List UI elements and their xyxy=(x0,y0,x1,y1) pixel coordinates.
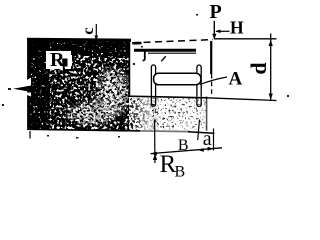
wall bottom edge xyxy=(29,129,190,131)
svg-text:P: P xyxy=(210,1,222,23)
beam end solid line xyxy=(210,41,212,74)
H leader line xyxy=(216,30,230,32)
bottom dimension line xyxy=(151,148,223,154)
c arrowhead xyxy=(95,36,99,42)
wall bottom edge fade xyxy=(140,128,207,133)
left anchor bolt xyxy=(151,65,155,97)
right anchor bolt xyxy=(197,65,201,97)
wall top edge xyxy=(27,38,131,42)
beam end dashed line xyxy=(211,74,213,97)
wall right edge below notch xyxy=(206,97,208,131)
svg-text:d: d xyxy=(246,62,271,74)
weld tick xyxy=(161,56,166,61)
wall hatch main block xyxy=(30,40,132,130)
left edge white wedge xyxy=(16,78,31,88)
a right extension line xyxy=(213,129,215,151)
d bottom extension line xyxy=(207,98,277,101)
svg-text:H: H xyxy=(230,18,244,38)
seat top plate thick line xyxy=(134,49,196,52)
a overbar xyxy=(188,132,214,133)
svg-text:c: c xyxy=(80,27,97,34)
bottom dim right arrowhead xyxy=(208,147,214,151)
scattered scan specks xyxy=(2,14,289,139)
notch top first thick dash xyxy=(133,42,142,45)
notch left edge xyxy=(128,41,130,97)
B right extension line xyxy=(198,120,200,141)
seat top plate lower line xyxy=(148,52,196,54)
reaction label subscript blob xyxy=(62,59,68,71)
seat slot bar xyxy=(154,73,201,85)
left anchor bolt lower U end xyxy=(151,97,155,106)
wall bottom-left tick xyxy=(29,131,31,139)
wall hatch below seat notch xyxy=(129,98,207,130)
svg-text:A: A xyxy=(229,69,243,90)
svg-text:B: B xyxy=(175,164,186,181)
d top extension line xyxy=(214,38,277,40)
right anchor bolt lower U end xyxy=(197,97,201,107)
dimension line d xyxy=(270,34,272,101)
d top arrowhead xyxy=(269,40,273,47)
notch top dashed line xyxy=(132,40,213,43)
reaction RB arrowhead xyxy=(153,154,157,160)
svg-text:a: a xyxy=(203,128,212,150)
svg-text:B: B xyxy=(178,137,189,154)
label RB xyxy=(160,151,186,181)
bottom dim middle arrowhead xyxy=(198,148,204,152)
left edge white wedge lower xyxy=(20,93,31,97)
c extension line xyxy=(95,24,97,42)
d bottom arrowhead xyxy=(269,94,273,101)
notch bottom edge xyxy=(128,96,207,98)
bottom dim left arrowhead xyxy=(151,152,157,156)
reaction label white patch xyxy=(46,51,72,69)
wall left edge xyxy=(27,39,30,130)
A leader line xyxy=(200,77,227,85)
left edge arrow xyxy=(13,85,32,92)
load P arrow line xyxy=(213,21,215,39)
H leader arrowhead xyxy=(215,30,220,34)
load P arrowhead xyxy=(212,34,216,40)
B left extension line xyxy=(154,120,156,164)
seat plate left hook xyxy=(143,50,145,60)
